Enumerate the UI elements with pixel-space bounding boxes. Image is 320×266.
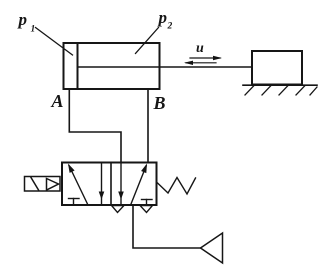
svg-text:B: B	[153, 93, 166, 113]
left cell flow arrow	[68, 164, 88, 205]
left cell down-flow arrowhead	[99, 192, 105, 200]
svg-text:p: p	[157, 8, 168, 27]
right cell flow arrow	[131, 164, 147, 205]
piston rod	[78, 66, 253, 68]
drain triangle left	[112, 206, 125, 213]
svg-text:u: u	[196, 41, 204, 56]
solenoid	[25, 177, 61, 192]
valve body	[62, 163, 157, 206]
left cell blocked port	[69, 199, 80, 205]
piston	[77, 43, 79, 89]
right cell blocked port	[142, 200, 153, 205]
leader line p2	[136, 28, 159, 54]
cylinder body	[64, 43, 160, 89]
right cell down-flow arrowhead	[118, 192, 124, 200]
wire A: cylinder port to valve	[69, 89, 121, 163]
spring	[157, 178, 196, 195]
drain triangle right	[140, 206, 153, 213]
right cell down-flow line	[120, 163, 122, 205]
label p2	[157, 8, 173, 32]
svg-text:2: 2	[167, 22, 173, 32]
ground hatching	[245, 86, 317, 96]
svg-text:1: 1	[31, 25, 36, 35]
velocity arrows	[184, 56, 222, 65]
svg-text:A: A	[51, 91, 64, 111]
label u	[196, 41, 204, 56]
valve divider	[110, 163, 112, 206]
ground line	[243, 84, 317, 86]
wire B: cylinder port to valve	[147, 89, 149, 163]
supply wire to pump	[133, 205, 200, 248]
label A	[51, 91, 64, 111]
label B	[153, 93, 166, 113]
label p1	[17, 10, 36, 35]
left cell down-flow line	[101, 163, 103, 205]
mass block	[252, 51, 302, 85]
svg-text:p: p	[17, 10, 28, 29]
pump triangle	[201, 233, 223, 263]
leader line p1	[36, 28, 73, 56]
